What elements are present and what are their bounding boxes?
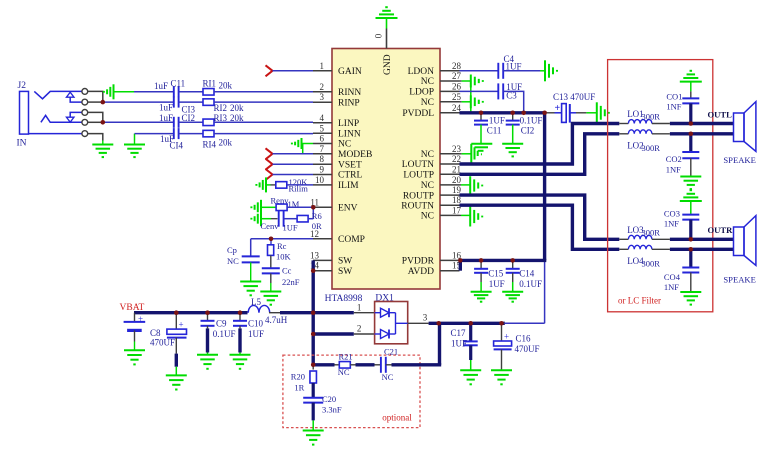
svg-text:0R: 0R	[312, 221, 322, 231]
ground LINN input	[124, 134, 145, 158]
svg-text:ENV: ENV	[338, 204, 358, 214]
svg-text:C10: C10	[248, 319, 264, 329]
inductor LO3 300R	[619, 225, 670, 239]
svg-text:HTA8998: HTA8998	[325, 294, 363, 304]
wire LOUTN to LO1 row	[460, 124, 620, 165]
svg-text:CO1: CO1	[666, 92, 682, 102]
wire C11 to ground	[480, 125, 482, 144]
capacitor Cenv 1UF	[261, 211, 298, 233]
ground battery	[124, 342, 145, 365]
no-connect marker pin9 CTRL	[266, 169, 273, 180]
wire LDOP to C3	[460, 90, 499, 92]
ground C9	[197, 355, 218, 369]
svg-text:LDON: LDON	[408, 67, 435, 77]
jack ring contact	[41, 115, 82, 122]
wire RI3 to LINP	[214, 121, 313, 123]
svg-text:20k: 20k	[219, 81, 233, 91]
net label OUTR	[708, 225, 734, 235]
svg-text:300R: 300R	[642, 143, 661, 153]
resistor RI2 20k	[203, 99, 244, 113]
wire jack tip to RINP node	[88, 91, 103, 102]
ground CO4	[680, 292, 701, 305]
ground C10	[230, 355, 251, 369]
wire C20 to ground	[312, 403, 315, 431]
wire CO3 to OUTR row	[689, 220, 692, 240]
wire PVDD trunk vertical	[543, 113, 546, 261]
wire pin23 NC to ground	[460, 145, 472, 164]
svg-text:AVDD: AVDD	[408, 267, 434, 277]
wire CI3 to RI2	[179, 101, 204, 103]
wire C14 to ground	[512, 273, 514, 292]
wire CI2 to RI3	[179, 121, 204, 123]
net label VBAT	[120, 303, 145, 313]
node junction OUTR	[689, 237, 694, 242]
svg-text:NC: NC	[338, 367, 350, 377]
wire LDON to C4	[460, 70, 499, 72]
inductor LO4 300R	[619, 245, 670, 268]
wire LINP row	[103, 121, 174, 123]
svg-text:NC: NC	[421, 181, 434, 191]
jack pin circle 4	[82, 119, 88, 125]
svg-text:8: 8	[320, 154, 325, 164]
connector J2 body	[18, 81, 29, 134]
node junction C3 tap	[521, 111, 526, 116]
node junction C10	[238, 310, 243, 315]
ground C11 (corner style)	[471, 144, 492, 164]
ground pin20 (sideways right)	[470, 176, 482, 195]
ground pin25 (sideways right)	[471, 95, 483, 108]
wire ENV junction down	[312, 207, 314, 218]
battery VBAT cap symbol	[124, 314, 146, 330]
inductor LO1 300R	[619, 109, 670, 124]
no-connect marker pin8 VSET	[266, 159, 273, 170]
node junction C11	[479, 111, 484, 116]
svg-text:10: 10	[315, 175, 325, 185]
node junction C8	[174, 310, 179, 315]
svg-text:1UF: 1UF	[248, 329, 264, 339]
ground C20	[303, 431, 324, 445]
svg-text:NC: NC	[421, 77, 434, 87]
ground pin17 (sideways right)	[470, 207, 482, 227]
svg-text:20k: 20k	[230, 113, 244, 123]
IC left pin stubs and pin numbers 1-14	[310, 61, 332, 271]
svg-text:OUTR: OUTR	[708, 225, 734, 235]
svg-text:300R: 300R	[642, 259, 661, 269]
svg-text:Rc: Rc	[277, 241, 287, 251]
wire RI2 to RINP	[214, 101, 313, 103]
ground C13 (sideways right)	[597, 102, 609, 123]
svg-text:ROUTN: ROUTN	[401, 201, 434, 211]
svg-text:J2: J2	[18, 81, 27, 91]
node junction LINP	[101, 120, 106, 125]
resistor Rilim 120K	[271, 177, 309, 194]
wire MODEB	[273, 153, 314, 155]
inductor LO2 300R	[619, 130, 670, 153]
svg-text:3: 3	[423, 313, 428, 323]
svg-text:DX1: DX1	[375, 294, 394, 304]
wire COMP down to Cp	[250, 239, 252, 256]
wire RINN row left	[134, 91, 174, 93]
capacitor C21 NC	[381, 347, 398, 383]
ground C8	[166, 375, 187, 389]
diode box DX1	[375, 294, 408, 344]
capacitor C3 1UF	[498, 82, 522, 101]
svg-text:SW: SW	[338, 267, 352, 277]
wire GAIN	[273, 70, 314, 72]
svg-text:NC: NC	[421, 98, 434, 108]
svg-text:or LC Filter: or LC Filter	[618, 296, 661, 306]
diode DX1 bottom	[375, 330, 396, 339]
wire ROUTN to LO4 row	[460, 205, 620, 249]
wire LO1 to speaker	[670, 122, 734, 125]
svg-text:0.1UF: 0.1UF	[213, 329, 236, 339]
ground Cc	[260, 273, 281, 304]
diode DX1 top	[375, 308, 396, 317]
wire RI4 to LINN	[214, 133, 313, 135]
wire PVDDL to C13	[546, 112, 555, 114]
svg-text:VSET: VSET	[338, 160, 362, 170]
svg-text:1uF: 1uF	[154, 81, 168, 91]
svg-text:5: 5	[320, 123, 325, 133]
svg-text:C11: C11	[171, 79, 186, 89]
svg-text:26: 26	[452, 81, 462, 91]
wire pin17 NC to ground	[460, 214, 471, 216]
svg-text:NC: NC	[421, 212, 434, 222]
svg-text:RI2: RI2	[214, 103, 228, 113]
node junction node3 C17	[468, 321, 473, 326]
node junction node3 a	[436, 321, 441, 326]
part label HTA8998	[325, 294, 363, 304]
jack pin circle 5	[82, 131, 88, 137]
wire VBAT stub down	[134, 313, 136, 322]
svg-text:CI2: CI2	[182, 113, 196, 123]
svg-text:3.3nF: 3.3nF	[322, 405, 342, 415]
svg-text:7: 7	[320, 144, 325, 154]
svg-text:3: 3	[320, 92, 325, 102]
svg-text:Renv: Renv	[271, 196, 290, 206]
resistor RI1 20k	[203, 79, 233, 96]
svg-text:COMP: COMP	[338, 235, 365, 245]
node junction SW pin14	[311, 268, 316, 273]
svg-text:R20: R20	[291, 372, 305, 382]
svg-text:LINP: LINP	[338, 119, 359, 129]
node junction node3 C16	[499, 321, 504, 326]
ground CO3 (inverted)	[680, 190, 702, 201]
svg-text:SW: SW	[338, 257, 352, 267]
resistor Rc 10K	[268, 239, 292, 262]
svg-text:C20: C20	[322, 394, 336, 404]
svg-text:22nF: 22nF	[282, 277, 300, 287]
capacitor CI1 1uF	[154, 79, 185, 98]
svg-text:300R: 300R	[642, 228, 661, 238]
svg-text:SPEAKE: SPEAKE	[723, 274, 755, 284]
node junction R21 row	[311, 363, 316, 368]
wire RI1 to RINN	[214, 91, 313, 93]
node junction C9	[205, 310, 210, 315]
jack sleeve wire	[29, 133, 83, 135]
svg-text:4: 4	[320, 113, 325, 123]
jack pin circle 1	[82, 89, 88, 95]
capacitor C17 1UF	[451, 323, 478, 348]
svg-text:CO4: CO4	[664, 272, 681, 282]
svg-text:28: 28	[452, 61, 462, 71]
speaker right	[723, 216, 756, 285]
capacitor CO2 1NF	[666, 134, 700, 175]
net label OUTL	[708, 110, 733, 120]
wire trunk to DX1 pin2	[313, 324, 374, 335]
node junction C12	[510, 111, 515, 116]
svg-text:27: 27	[452, 71, 462, 81]
wire LO2 to speaker	[670, 132, 734, 135]
capacitor C10 1UF	[233, 313, 264, 339]
ground C17	[460, 370, 481, 384]
ground C12	[502, 144, 523, 157]
wire C16 to ground	[501, 349, 503, 370]
svg-text:MODEB: MODEB	[338, 150, 372, 160]
svg-text:20: 20	[452, 175, 462, 185]
capacitor Cp NC	[227, 245, 260, 266]
wire LO4 to speaker	[670, 248, 734, 251]
svg-text:1NF: 1NF	[664, 219, 679, 229]
svg-text:2: 2	[357, 324, 362, 334]
wire AVDD tie	[459, 260, 462, 270]
wire jack pin2	[88, 101, 103, 103]
LC filter box	[608, 60, 713, 312]
wire C10 to ground	[239, 326, 241, 355]
svg-text:Cp: Cp	[227, 245, 237, 255]
wire Cenv to R6	[284, 218, 298, 220]
svg-text:1: 1	[320, 61, 325, 71]
svg-text:1NF: 1NF	[666, 165, 681, 175]
svg-text:C13 470UF: C13 470UF	[553, 92, 595, 102]
wire C12 to ground	[512, 125, 514, 144]
svg-text:GND: GND	[383, 54, 393, 75]
wire Rc to Cc	[270, 255, 272, 268]
svg-text:LINN: LINN	[338, 130, 361, 140]
svg-text:C9: C9	[216, 319, 227, 329]
svg-text:C14: C14	[519, 269, 535, 279]
wire Rilim to ILIM	[287, 184, 313, 186]
inductor L5 4.7uH	[248, 297, 288, 325]
capacitor C4 1UF	[498, 54, 521, 79]
svg-text:C11: C11	[487, 126, 502, 136]
node junction LO2 CO2	[689, 132, 694, 137]
ground RINN input (sideways)	[104, 84, 134, 99]
resistor R20 1R	[291, 365, 317, 393]
wire PVDDL bus	[460, 111, 547, 114]
svg-text:NC: NC	[338, 140, 351, 150]
svg-text:CI2: CI2	[521, 126, 535, 136]
wire VBAT bus	[134, 311, 248, 314]
svg-text:20k: 20k	[219, 138, 233, 148]
svg-text:C17: C17	[451, 328, 467, 338]
wire CO4 to ground	[690, 273, 692, 293]
wire LOUTP to LO2 row	[460, 134, 620, 175]
capacitor C20 3.3nF	[303, 394, 342, 415]
capacitor C14 0.1UF	[506, 260, 542, 289]
svg-text:300R: 300R	[642, 112, 661, 122]
svg-text:1UF: 1UF	[489, 116, 505, 126]
capacitor C13 470UF	[553, 92, 595, 123]
capacitor C15 1UF	[474, 260, 505, 289]
svg-text:20k: 20k	[230, 103, 244, 113]
wire trunk to DX1 pin1	[313, 303, 374, 313]
op-amp U1 HTA8998 IC body	[332, 49, 440, 290]
node junction AVDD	[458, 258, 463, 263]
wire pin27 NC to ground	[460, 80, 471, 82]
svg-text:0: 0	[374, 33, 384, 38]
wire RINP row	[103, 101, 174, 103]
svg-text:GAIN: GAIN	[338, 67, 362, 77]
svg-text:4.7uH: 4.7uH	[265, 315, 288, 325]
svg-text:C21: C21	[384, 347, 398, 357]
svg-text:1NF: 1NF	[666, 102, 681, 112]
capacitor Cc 22nF	[262, 266, 300, 288]
svg-text:LOUTN: LOUTN	[402, 160, 434, 170]
ground C16	[491, 370, 512, 384]
jack switch arrow down	[66, 112, 82, 122]
wire R20 to C20	[312, 383, 315, 398]
wire CTRL	[273, 174, 314, 176]
wire CI4 to RI4	[179, 133, 204, 135]
svg-text:C15: C15	[488, 269, 504, 279]
wire VSET	[273, 163, 314, 165]
wire DX1 output node 3	[408, 313, 429, 324]
svg-text:CO3: CO3	[664, 209, 680, 219]
svg-text:1UF: 1UF	[506, 62, 522, 72]
IC U1 pin name labels	[338, 54, 435, 277]
wire jack pin4	[88, 121, 103, 123]
svg-text:RI3: RI3	[214, 113, 228, 123]
capacitor C9 0.1UF	[201, 313, 236, 339]
wire R21 row left	[313, 363, 339, 366]
svg-text:+: +	[179, 320, 184, 330]
IC GND pin 0 stub	[374, 29, 387, 49]
capacitor C8 470UF	[150, 313, 187, 348]
svg-text:Cc: Cc	[282, 266, 292, 276]
wire jack sleeve to ground	[88, 134, 103, 141]
ground pin6 NC (sideways)	[292, 138, 313, 149]
svg-text:C8: C8	[150, 328, 161, 338]
node junction LO4 CO4	[689, 247, 694, 252]
ground CO1 (inverted)	[680, 71, 702, 92]
svg-text:RI1: RI1	[203, 79, 217, 89]
svg-text:470UF: 470UF	[150, 338, 175, 348]
svg-text:9: 9	[320, 165, 325, 175]
svg-text:1R: 1R	[294, 383, 304, 393]
svg-text:470UF: 470UF	[515, 344, 540, 354]
svg-text:ROUTP: ROUTP	[403, 191, 434, 201]
wire battery to ground	[134, 330, 136, 341]
capacitor C16 470UF	[494, 323, 540, 354]
wire jack ring to LINP node	[88, 112, 103, 122]
capacitor CO4 1NF	[664, 249, 699, 292]
no-connect marker pin1 GAIN	[266, 65, 273, 76]
svg-text:1uF: 1uF	[159, 103, 173, 113]
wire C3 down to PVDDL bus	[503, 91, 524, 112]
svg-text:NC: NC	[421, 150, 434, 160]
connector J2 label IN	[17, 139, 27, 149]
ground jack sleeve	[92, 141, 113, 158]
ground GND top	[376, 7, 398, 28]
svg-text:NC: NC	[227, 256, 239, 266]
svg-text:LDOP: LDOP	[409, 88, 434, 98]
ground pin27 (sideways right)	[471, 75, 483, 88]
ground C4 (sideways right)	[545, 60, 557, 81]
resistor R6 0R	[297, 211, 322, 231]
wire CI1 to RI1	[179, 91, 204, 93]
wire C9 to ground	[207, 326, 209, 355]
svg-text:1UF: 1UF	[283, 223, 298, 233]
wire R6 to ENV node	[308, 218, 313, 220]
wire pin20 NC to ground	[460, 184, 471, 186]
svg-text:1UF: 1UF	[489, 279, 505, 289]
svg-text:L5: L5	[251, 297, 261, 307]
svg-text:1UF: 1UF	[451, 339, 467, 349]
resistor Renv 1M	[271, 196, 300, 211]
svg-text:RI4: RI4	[203, 140, 217, 150]
resistor RI3 20k	[203, 113, 244, 126]
svg-text:6: 6	[320, 134, 325, 144]
capacitor CO1 1NF	[666, 91, 699, 111]
svg-text:2: 2	[320, 82, 325, 92]
svg-text:13: 13	[310, 250, 320, 260]
svg-text:NC: NC	[382, 372, 394, 382]
svg-text:Cenv: Cenv	[261, 221, 280, 231]
ground C15	[471, 292, 492, 302]
svg-text:ILIM: ILIM	[338, 181, 359, 191]
capacitor CI3 1uF	[159, 97, 196, 115]
ground Cp	[240, 262, 261, 295]
capacitor CI2 1uF	[159, 113, 195, 128]
resistor RI4 20k	[203, 130, 233, 149]
node junction RINP	[101, 100, 106, 105]
svg-text:0.1UF: 0.1UF	[519, 279, 542, 289]
svg-text:R21: R21	[339, 352, 353, 362]
svg-text:PVDDL: PVDDL	[402, 109, 434, 119]
IC right pin stubs and pin numbers 15-28	[440, 61, 462, 271]
wire ROUTP to LO3 row	[460, 195, 620, 239]
node junction C14	[510, 258, 515, 263]
svg-text:10K: 10K	[276, 252, 292, 262]
svg-text:1NF: 1NF	[664, 282, 679, 292]
svg-text:1uF: 1uF	[159, 113, 173, 123]
no-connect marker pin7 MODEB	[266, 148, 273, 159]
svg-text:SPEAKE: SPEAKE	[723, 155, 755, 165]
svg-text:25: 25	[452, 92, 462, 102]
node junction COMP	[269, 237, 274, 242]
svg-text:OUTL: OUTL	[708, 110, 733, 120]
wire L5 to trunk	[269, 312, 313, 314]
svg-text:RINN: RINN	[338, 88, 361, 98]
capacitor C11 1UF	[474, 113, 505, 136]
jack pin circle 3	[82, 110, 88, 116]
jack pin circle 2	[82, 99, 88, 105]
wire node3 row	[429, 322, 545, 325]
wire C13 to ground	[576, 112, 597, 114]
wire LO3 to speaker	[670, 238, 734, 241]
wire Renv to ENV	[287, 206, 313, 208]
wire node3 up to PVDD trunk	[544, 260, 546, 323]
wire C8 to ground	[175, 338, 177, 376]
svg-text:+: +	[138, 314, 143, 324]
wire C17 to ground	[469, 345, 472, 370]
capacitor C12 0.1UF	[506, 113, 543, 136]
svg-text:LOUTP: LOUTP	[403, 171, 434, 181]
ground Cenv (sideways)	[251, 211, 271, 226]
speaker left	[723, 102, 756, 165]
wire DX1 internal	[396, 313, 408, 334]
